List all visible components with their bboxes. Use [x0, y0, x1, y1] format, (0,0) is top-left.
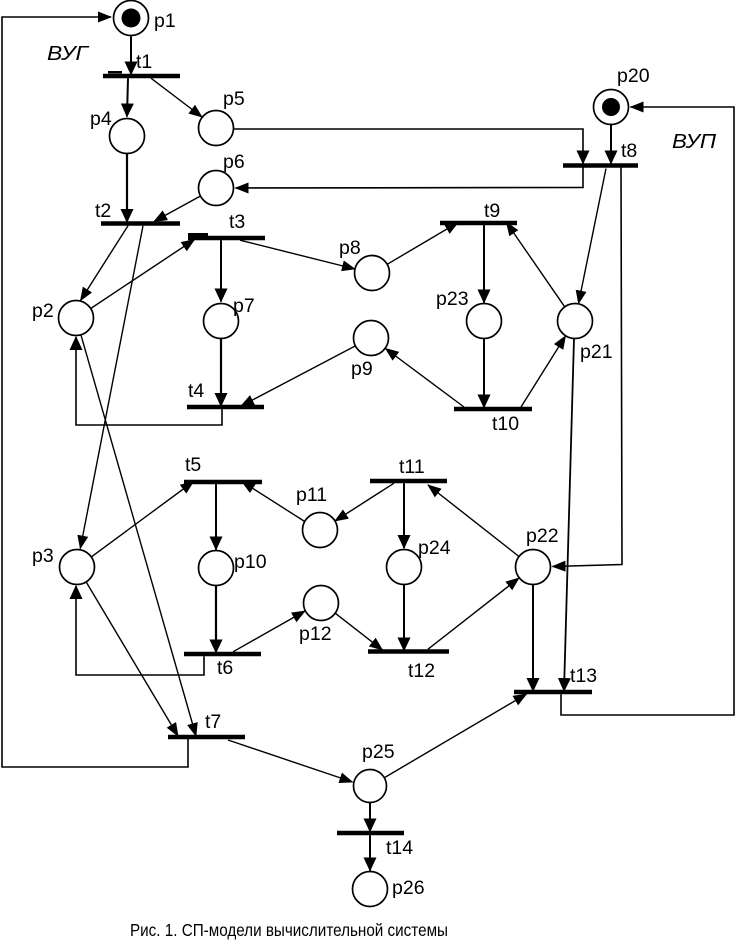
wire t6->p3 feedback: [76, 586, 204, 675]
svg-text:p8: p8: [339, 237, 361, 259]
transition t1: [103, 74, 180, 79]
svg-text:ВУГ: ВУГ: [47, 43, 90, 65]
wire p3->t7: [86, 582, 178, 736]
transition t2: [101, 221, 180, 226]
svg-text:p3: p3: [32, 545, 54, 567]
wire p11->t5: [242, 482, 305, 522]
transition t5: [184, 480, 262, 485]
svg-text:t4: t4: [188, 380, 204, 402]
transition t9: [440, 221, 517, 226]
svg-text:p11: p11: [296, 484, 327, 506]
place p11: [303, 513, 338, 548]
place p21: [558, 304, 593, 339]
wire t11->p24: [403, 483, 405, 548]
wire t8->p22 elbow: [553, 167, 623, 566]
wire p23->t10: [483, 339, 485, 408]
place p22: [516, 550, 551, 585]
place p7: [204, 304, 239, 339]
svg-text:p5: p5: [223, 88, 245, 110]
wire t7->p25: [228, 740, 353, 782]
svg-text:t1: t1: [136, 51, 152, 73]
transition t11: [370, 479, 447, 484]
svg-text:p23: p23: [436, 288, 469, 310]
wire p20->t8: [610, 125, 612, 164]
wire p3->t5: [91, 482, 193, 557]
svg-text:p12: p12: [299, 623, 332, 645]
wire p1->t1: [130, 37, 132, 75]
place p24: [387, 550, 422, 585]
svg-text:p6: p6: [223, 151, 245, 173]
wire t9->p23: [483, 225, 485, 302]
wire p8->t9: [387, 223, 458, 265]
svg-text:t6: t6: [217, 657, 233, 679]
wire t2->p2: [81, 226, 129, 301]
place p20: [594, 90, 629, 125]
svg-text:p20: p20: [617, 65, 650, 87]
wire t10->p21: [521, 336, 566, 407]
wire p4->t2: [126, 154, 128, 223]
wire t8->p21: [579, 169, 607, 304]
place p12: [304, 586, 339, 621]
place p6: [199, 171, 234, 206]
wire p25->t14: [369, 803, 371, 832]
wire t11->p11: [335, 483, 394, 521]
transition t12: [368, 649, 449, 654]
svg-text:ВУП: ВУП: [672, 131, 717, 153]
svg-text:t11: t11: [399, 456, 425, 478]
wire t6->p12: [233, 611, 305, 652]
wire t5->p10: [215, 484, 217, 549]
place p25: [354, 770, 387, 803]
svg-text:p2: p2: [32, 300, 54, 322]
place p9: [354, 321, 389, 356]
wire p6->t2: [154, 196, 201, 222]
place p23: [467, 304, 502, 339]
wire t10->p9: [386, 349, 465, 408]
svg-text:t7: t7: [205, 711, 221, 733]
place p4: [110, 119, 145, 154]
wire p21->t9: [507, 223, 565, 307]
wire t7->p1 feedback loop (left border): [2, 17, 188, 767]
wire p22->t13: [532, 585, 534, 692]
svg-text:t8: t8: [621, 140, 637, 162]
svg-text:t2: t2: [95, 200, 111, 222]
transition t4: [187, 405, 264, 410]
wire p12->t12: [335, 613, 382, 650]
wire t3->p8: [240, 240, 355, 269]
transition t8: [563, 163, 638, 168]
svg-text:t3: t3: [229, 211, 245, 233]
svg-text:p4: p4: [90, 108, 112, 130]
wire p22->t11: [428, 485, 519, 557]
svg-text:t9: t9: [484, 200, 500, 222]
svg-text:t14: t14: [386, 837, 413, 859]
wire p9->t4: [241, 346, 355, 406]
wire t2->p3: [80, 226, 143, 549]
svg-text:p25: p25: [362, 741, 395, 763]
transition t6: [184, 652, 261, 657]
svg-text:p9: p9: [351, 358, 373, 380]
place p8: [355, 256, 390, 291]
place p3: [60, 550, 95, 585]
transition t10: [454, 407, 532, 412]
svg-text:p22: p22: [526, 525, 559, 547]
transition t14: [337, 831, 404, 836]
transition t7: [168, 735, 245, 740]
wire t1->p5: [151, 78, 202, 117]
svg-text:t13: t13: [570, 665, 597, 687]
transition t13: [514, 690, 592, 695]
svg-text:Рис. 1. СП-модели вычислительн: Рис. 1. СП-модели вычислительной системы: [130, 920, 448, 940]
svg-text:t10: t10: [492, 413, 519, 435]
wire t14->p26: [369, 835, 371, 870]
wire p25->t13: [385, 694, 527, 778]
wire t1->p4: [127, 78, 128, 116]
wire p24->t12: [403, 585, 405, 651]
svg-text:t5: t5: [185, 454, 201, 476]
wire t8->p6 elbow: [236, 167, 584, 188]
svg-text:p7: p7: [233, 295, 255, 317]
wire p10->t6: [215, 586, 217, 653]
svg-text:p21: p21: [580, 341, 613, 363]
wire p7->t4: [220, 339, 222, 407]
wire p21->t13: [564, 339, 574, 692]
svg-text:p26: p26: [392, 877, 425, 899]
wire t4->p2 feedback: [76, 337, 222, 425]
wire p5->t8 elbow: [234, 129, 584, 164]
place p26: [353, 872, 388, 907]
wire t12->p22: [428, 578, 519, 649]
svg-text:t12: t12: [408, 660, 435, 682]
svg-text:p24: p24: [418, 537, 451, 559]
place p5: [199, 111, 234, 146]
place p1: [114, 1, 149, 36]
svg-text:p10: p10: [234, 551, 267, 573]
wire p2->t7: [81, 335, 196, 736]
wire p2->t3: [91, 240, 195, 309]
wire t3->p7: [220, 240, 222, 301]
wire t13->p20 loop: [561, 107, 734, 715]
place p10: [199, 551, 234, 586]
svg-text:p1: p1: [154, 10, 176, 32]
transition t3: [188, 236, 265, 241]
place p2: [59, 301, 94, 336]
